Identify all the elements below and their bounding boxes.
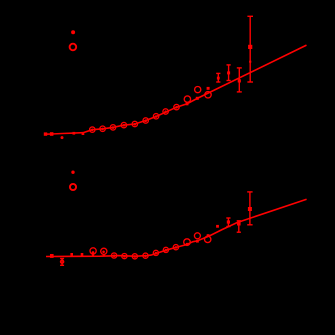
error bar point 2 (top panel, x=228.6) [227, 65, 231, 81]
open circle with dot B6 [143, 253, 148, 258]
error bar point 1 (bottom panel, x=228.4) [226, 218, 230, 227]
open circle with dot B3 [112, 253, 117, 258]
open circle with dot B9 [173, 245, 178, 250]
small tick point on tall bar [249, 61, 251, 63]
outlier open circle with error bar below line (x=62.1) [60, 259, 64, 266]
open circle B12 [205, 236, 211, 242]
open circle with dot B7 [153, 250, 158, 255]
open circle with dot B10 [184, 239, 191, 246]
model line (bottom panel) [46, 199, 307, 256]
tick below B2 on line [103, 254, 105, 256]
open circle above line B1 (x=93.1) [90, 248, 96, 254]
model line (top panel): flat left tail, curves up, straight extrapolation [45, 45, 306, 134]
square point (51.6,134) [50, 132, 54, 136]
inner dot B1 [92, 251, 95, 254]
open circle above line B2 (x=103.8) [101, 248, 107, 254]
square point (71.7,254.3) [70, 253, 73, 256]
square point (82,254.3) [81, 253, 84, 256]
square below C10 [186, 103, 189, 106]
error bar point 2 (bottom panel, x=238.8) [237, 221, 241, 232]
open circle C12 [205, 92, 211, 98]
open circle B11 [194, 233, 200, 239]
isolated dot top-left (top panel) [71, 30, 75, 34]
error bar point 3 (top panel, x=239.3) [237, 68, 242, 92]
open circle with dot C2 [100, 126, 105, 131]
small square point (217.5,226.3) bottom panel [216, 225, 219, 228]
outlier dot (62,137.7) below line [61, 136, 64, 139]
open circle with dot C1 [90, 127, 95, 132]
open circle with dot B8 [163, 247, 168, 252]
open circle C10 [184, 96, 190, 102]
isolated dot (bottom panel) [71, 171, 74, 174]
square on line below C11 [196, 97, 199, 100]
open circle with dot B4 [122, 254, 127, 259]
big square point (51.8,255.9) [50, 254, 54, 258]
inner dot B2 [102, 251, 105, 254]
tall error bar point (top panel, x=250.2) [247, 16, 253, 82]
square above B12 [207, 234, 210, 237]
tall error bar point (bottom panel, x=249.9) [247, 192, 252, 225]
open circle with dot C3 [110, 125, 115, 130]
open circle with dot B5 [132, 254, 137, 259]
tick below B1 on line [92, 254, 94, 256]
open circle with dot C4 [121, 122, 126, 127]
open circle with dot C8 [163, 109, 168, 114]
error bar point 1 (top panel, x=218.3) [216, 73, 220, 82]
open circle with dot C9 [174, 104, 179, 109]
open circle C11 [195, 87, 201, 93]
open circle with dot C6 [143, 118, 148, 123]
square below B11 on line [196, 240, 199, 243]
open circle with dot C7 [153, 114, 158, 119]
isolated open circle (bottom panel) [70, 184, 76, 190]
square above C12 [207, 87, 210, 90]
isolated open circle top-left (top panel) [70, 44, 77, 51]
point (82.9,133.6) [82, 132, 85, 135]
square point (45.5,134) start [44, 132, 47, 135]
open circle with dot C5 [132, 121, 137, 126]
point (73.8,133.2) [73, 132, 76, 135]
